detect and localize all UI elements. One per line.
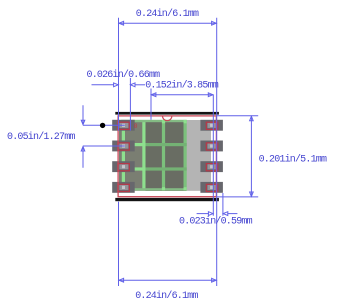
svg-text:0: 0 <box>134 123 138 130</box>
bottom dim line <box>119 279 217 281</box>
green horizontal line h2 right muted <box>146 167 187 170</box>
red pin-1 notch semicircle <box>163 116 172 121</box>
svg-text:0.201in/5.1mm: 0.201in/5.1mm <box>259 154 327 166</box>
green horizontal line h1 left bright <box>121 143 145 146</box>
pad 1 (left) <box>112 120 135 131</box>
0.026 right tick <box>129 78 131 131</box>
green horizontal top edge <box>121 120 187 122</box>
black bar top <box>115 112 219 115</box>
0.152 dim line <box>151 94 213 96</box>
svg-text:0.023in/0.59mm: 0.023in/0.59mm <box>179 216 253 228</box>
pin 1 dot <box>100 123 105 128</box>
pad 2 (left) <box>112 141 135 152</box>
0.152 left extension <box>150 89 152 120</box>
blue dimension graphics <box>81 18 258 286</box>
0.023 dim arrows <box>197 213 209 215</box>
green vertical line A <box>122 120 125 191</box>
black bar bottom <box>115 198 219 201</box>
red component outline <box>118 116 216 197</box>
pad number marks <box>122 124 213 189</box>
left dim leaders <box>83 124 125 126</box>
pad terminal red outlines <box>118 122 218 191</box>
pad 5 (right) <box>200 182 223 193</box>
svg-text:0.026in/0.66mm: 0.026in/0.66mm <box>87 69 161 81</box>
package body light grey strip (right) <box>186 120 211 191</box>
green horizontal line h1 right muted <box>146 143 187 146</box>
0.026 dim arrows <box>92 84 115 86</box>
pad 8 (right) <box>200 120 223 131</box>
svg-text:0.05in/1.27mm: 0.05in/1.27mm <box>7 131 75 143</box>
green grid: exposed pad / paste grid <box>121 120 187 191</box>
left dim: bottom arrow seg <box>82 146 84 167</box>
bottom left extension <box>118 202 120 286</box>
svg-text:0.152in/3.85mm: 0.152in/3.85mm <box>145 79 219 91</box>
right dim extension lines <box>217 115 258 117</box>
die darker area <box>146 120 187 191</box>
green vertical line D <box>184 120 187 191</box>
pad 3 (left) <box>112 161 135 172</box>
pad 7 (right) <box>200 141 223 152</box>
0.023 right tick <box>222 193 224 216</box>
right long extension line <box>216 18 218 286</box>
pad 4 (left) <box>112 182 135 193</box>
green horizontal line h2 left bright <box>121 167 145 170</box>
svg-text:0.24in/6.1mm: 0.24in/6.1mm <box>136 8 199 20</box>
svg-text:0.24in/6.1mm: 0.24in/6.1mm <box>135 290 198 302</box>
package body dark grey-olive area <box>119 120 186 191</box>
right dim vertical <box>250 116 252 197</box>
shared tick x213.3 <box>212 95 214 216</box>
bright green caps at grid crossings <box>162 120 165 123</box>
pads left column <box>112 120 223 193</box>
green vertical line C <box>162 120 165 191</box>
left extension line (top) <box>118 18 120 131</box>
green vertical line B <box>142 120 145 191</box>
left dim: top arrow seg <box>82 105 84 125</box>
pad 6 (right) <box>200 161 223 172</box>
pad inner plated areas <box>119 123 216 190</box>
green horizontal bottom edge <box>121 188 187 190</box>
top dim line 0.24in <box>119 22 217 24</box>
